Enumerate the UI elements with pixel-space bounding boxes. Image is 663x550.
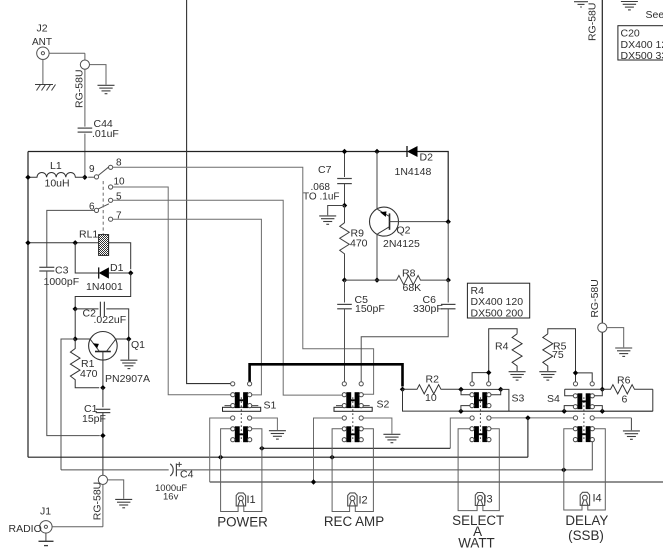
J2 ground stem xyxy=(42,59,44,84)
node S3 top pins junction xyxy=(486,370,491,375)
svg-text:C7: C7 xyxy=(318,164,332,176)
svg-text:R2: R2 xyxy=(426,374,440,386)
switch S3 contact block lower xyxy=(470,426,491,442)
switch S2 top pins xyxy=(342,382,363,386)
J1 ground xyxy=(39,533,54,546)
switch row3 pins S1 xyxy=(231,416,252,420)
svg-text:DX500 200: DX500 200 xyxy=(471,307,524,319)
capacitor C5 xyxy=(337,280,385,382)
resistor R9 xyxy=(340,206,368,281)
node bus3 S2 xyxy=(311,479,316,484)
wire L1 to relay pin 9 xyxy=(88,176,94,178)
resistor R5 xyxy=(543,334,567,371)
wire pin10 to S1 block xyxy=(113,187,231,395)
top rail y=151.5 xyxy=(28,151,407,153)
wire S2 row3 right to ground xyxy=(363,418,392,434)
diode D1 xyxy=(86,262,131,293)
line 411 common xyxy=(461,410,653,412)
svg-text:C20: C20 xyxy=(621,27,640,39)
svg-text:R8: R8 xyxy=(402,268,416,280)
wire S3 block TR to frame right xyxy=(491,389,501,394)
wire S4 row3 right to ground xyxy=(594,417,631,419)
capacitor C6 xyxy=(413,280,456,315)
switch S1 bracket xyxy=(223,400,277,412)
svg-text:Q1: Q1 xyxy=(131,339,145,351)
wire S1 row3 left to bus3 xyxy=(210,418,231,482)
capacitor C44 xyxy=(78,118,119,140)
capacitor C2 xyxy=(75,302,129,339)
switch S2 bracket xyxy=(334,399,390,412)
svg-text:DELAY: DELAY xyxy=(565,513,608,528)
connector J2 xyxy=(32,23,52,60)
svg-text:RL1: RL1 xyxy=(79,229,98,241)
earth ground at J2 xyxy=(35,85,56,91)
wire S4 frame left branch xyxy=(565,389,574,396)
wire S3 frame right descender xyxy=(501,389,509,411)
svg-text:S4: S4 xyxy=(547,393,560,405)
wire S3 block BL drop xyxy=(461,406,470,412)
transistor Q1 xyxy=(75,332,150,388)
svg-text:75: 75 xyxy=(552,349,564,361)
inductor L1 xyxy=(28,160,85,190)
wire D1 node down to C2 xyxy=(75,273,131,309)
svg-text:TO .1uF: TO .1uF xyxy=(303,192,340,203)
resistor R6 xyxy=(602,375,653,406)
node 411 S4 left xyxy=(562,409,567,414)
node Q2 base D2 xyxy=(446,219,451,224)
svg-text:330pF: 330pF xyxy=(413,303,443,315)
coax shield symbol at J1 xyxy=(98,475,107,484)
relay pin 5 xyxy=(109,198,113,202)
svg-text:J2: J2 xyxy=(37,23,48,35)
svg-text:.022uF: .022uF xyxy=(94,314,127,326)
wire J2 to antenna line xyxy=(49,52,85,54)
coax shield symbol right xyxy=(598,323,607,332)
switch S4 contact block upper xyxy=(573,393,594,409)
svg-text:See: See xyxy=(646,9,663,21)
node row3 bus1 riser xyxy=(525,415,530,420)
svg-text:470: 470 xyxy=(350,237,368,249)
wire Q2 emitter xyxy=(376,152,378,210)
svg-text:8: 8 xyxy=(116,157,122,168)
ground hanging S4 row3 xyxy=(630,418,632,430)
svg-text:D2: D2 xyxy=(420,152,434,164)
switch row3 pins S2 xyxy=(342,416,363,420)
svg-text:10: 10 xyxy=(114,177,126,188)
ground below R5 xyxy=(539,372,556,380)
wire Q1 emitter branch to bus2 xyxy=(61,339,75,470)
resistor R2 xyxy=(403,374,462,405)
node Q1 base C1 xyxy=(100,385,105,390)
long vertical wire x=187 from top xyxy=(187,0,231,384)
node C7 bottom xyxy=(342,203,347,208)
ground below C7 xyxy=(319,216,336,224)
ground at J2 coax xyxy=(98,85,115,93)
node S3 frame left R2 xyxy=(458,387,463,392)
bus2 left segment to C4 xyxy=(61,469,169,471)
bus1 horizontal y=457.2 xyxy=(28,456,528,458)
wire C2 left down to emitter node xyxy=(74,309,76,339)
wire C6 to S2 top right pin xyxy=(361,309,448,382)
svg-text:6: 6 xyxy=(622,393,628,405)
svg-text:R4: R4 xyxy=(471,285,485,297)
ground at S1 xyxy=(269,431,286,439)
svg-text:Q2: Q2 xyxy=(397,225,411,237)
node bus1 S2 lamp left xyxy=(329,455,334,460)
relay pin 9 xyxy=(94,175,98,179)
bus1 right riser xyxy=(527,418,529,457)
switch S1 top pins xyxy=(231,382,252,386)
switch S2 contact block upper xyxy=(342,392,363,408)
svg-text:1N4148: 1N4148 xyxy=(395,166,432,178)
wire S3 row3 left to 448 line xyxy=(450,418,470,448)
lamp I3 xyxy=(475,493,484,506)
ground at J1 coax xyxy=(115,499,132,507)
wire S1 row3 right to ground xyxy=(252,418,277,430)
wire S4 block TR riser xyxy=(594,389,602,396)
node S4 top pins junction xyxy=(573,370,578,375)
node Q1 emitter xyxy=(73,336,78,341)
S1 lamp box xyxy=(221,429,262,512)
node S3 frame right xyxy=(498,387,503,392)
resistor R1 xyxy=(70,339,99,388)
node R2 left xyxy=(400,387,405,392)
svg-text:1N4001: 1N4001 xyxy=(86,281,123,293)
svg-text:9: 9 xyxy=(89,164,95,175)
ground top right full xyxy=(621,2,638,10)
wire D1 anode leg xyxy=(75,243,99,273)
caption DELAY SSB xyxy=(565,513,608,543)
svg-text:S2: S2 xyxy=(377,399,390,411)
svg-text:(SSB): (SSB) xyxy=(568,528,604,543)
capacitor C3 xyxy=(39,265,79,289)
node D1 cathode xyxy=(128,270,133,275)
node C1 bottom xyxy=(100,433,105,438)
thick RF wire S1 to R2 xyxy=(250,364,403,386)
S4 frame line xyxy=(565,388,603,390)
node Q2 collector R8 xyxy=(374,277,379,282)
wire C7 node to ground xyxy=(328,206,345,216)
switch S3 contact block upper xyxy=(470,392,491,408)
caption SELECT A WATT xyxy=(452,513,504,550)
svg-text:I4: I4 xyxy=(593,493,602,505)
wire pin6 to C3 xyxy=(47,210,95,267)
capacitor C4 polarized xyxy=(155,462,194,503)
wire left rail to RL1 xyxy=(28,242,99,244)
resistor R8 xyxy=(345,268,449,295)
node L1-C44 junction xyxy=(82,175,87,180)
svg-text:DX400 120: DX400 120 xyxy=(471,296,524,308)
wire Q2 collector xyxy=(376,234,378,280)
wire coax shield to ground J1 xyxy=(108,480,124,499)
lamp I1 xyxy=(236,493,245,506)
long vertical wire x=602 from top xyxy=(601,0,603,389)
wire RL1 right to D1 cathode node xyxy=(109,243,131,269)
wire R2 node descender to 411 line xyxy=(403,389,461,411)
top rail right of D2 xyxy=(418,152,449,222)
capacitor C7 xyxy=(303,152,352,206)
info box R4 values xyxy=(467,283,529,319)
svg-text:15pF: 15pF xyxy=(82,413,106,425)
svg-text:S1: S1 xyxy=(264,400,277,412)
node bus1 S1 lamp left xyxy=(218,455,223,460)
switch S3 top pins xyxy=(470,382,525,405)
transistor Q2 xyxy=(370,207,449,250)
ground right coax xyxy=(615,348,632,356)
switch S2 dashed link xyxy=(352,397,354,441)
switch S1 dashed link xyxy=(240,397,242,441)
ground below Q1 xyxy=(120,360,137,368)
svg-text:2N4125: 2N4125 xyxy=(383,238,420,250)
svg-text:I3: I3 xyxy=(484,494,493,506)
relay pin 6 xyxy=(94,208,98,212)
node R6 coax S4 frame xyxy=(600,387,605,392)
svg-text:RG-58U: RG-58U xyxy=(587,3,599,42)
svg-text:68K: 68K xyxy=(403,282,422,294)
node C2 left xyxy=(73,306,78,311)
svg-text:10: 10 xyxy=(425,392,437,404)
node D1 anode top xyxy=(73,240,78,245)
svg-text:L1: L1 xyxy=(50,160,62,172)
svg-text:150pF: 150pF xyxy=(355,303,385,315)
ground at S2 xyxy=(383,434,400,442)
svg-text:S3: S3 xyxy=(512,393,525,405)
S3 frame line xyxy=(461,388,501,390)
switch S1 contact block upper xyxy=(231,392,252,408)
connector J1 xyxy=(9,506,53,536)
wire pin8 to S2 block xyxy=(113,167,374,394)
switch S3 dashed link xyxy=(479,397,481,441)
svg-text:10uH: 10uH xyxy=(45,178,70,190)
svg-text:I1: I1 xyxy=(247,494,256,506)
row3 line S3 S4 xyxy=(491,417,574,419)
svg-text:C3: C3 xyxy=(55,265,69,277)
svg-text:J1: J1 xyxy=(40,506,51,518)
svg-text:I2: I2 xyxy=(359,495,368,507)
switch row3 pins S4 xyxy=(573,416,594,420)
info box C20 values xyxy=(618,26,663,62)
wire Q1 collector to ground xyxy=(128,339,130,360)
lamp I4 xyxy=(580,492,589,505)
node 448 S1 lamp right xyxy=(259,446,264,451)
svg-text:DX400 120: DX400 120 xyxy=(621,39,663,51)
lamp I2 xyxy=(348,493,357,506)
relay coil RL1 xyxy=(79,229,109,256)
svg-text:REC AMP: REC AMP xyxy=(324,514,384,529)
wire right coax shield to ground xyxy=(607,328,624,348)
svg-text:C4: C4 xyxy=(180,469,194,481)
node 411 S4 right xyxy=(600,409,605,414)
svg-text:RG-58U: RG-58U xyxy=(91,482,103,521)
node 411 S3 left xyxy=(458,409,463,414)
relay arm 9-8 xyxy=(98,167,109,176)
wire coax shield to ground xyxy=(90,65,107,85)
node R9 C5 R8 xyxy=(342,277,347,282)
wire J1 to coax line xyxy=(52,526,103,528)
switch S4 top pins xyxy=(547,382,594,405)
relay arm 6-5 xyxy=(98,204,109,209)
svg-text:ANT: ANT xyxy=(32,37,52,48)
wire S2 row3 left descender xyxy=(314,418,343,482)
svg-text:R6: R6 xyxy=(617,375,631,387)
bus3 horizontal y=482 xyxy=(210,481,663,483)
switch row3 pins S3 xyxy=(470,416,491,420)
svg-text:PN2907A: PN2907A xyxy=(105,373,150,385)
diode D2 xyxy=(395,146,434,178)
wire S4 block BL drop xyxy=(564,406,573,412)
node Q1 collector xyxy=(126,336,131,341)
S4 lamp box xyxy=(564,429,606,510)
wire pin7 to S1 block xyxy=(113,219,262,395)
svg-text:RG-58U: RG-58U xyxy=(74,69,86,108)
node C7 top rail xyxy=(342,149,347,154)
wire pin5 to S2 block xyxy=(113,200,343,395)
switch S4 dashed link xyxy=(583,397,585,441)
wire R4 lead to S3 top pins xyxy=(472,329,517,382)
resistor R4 xyxy=(495,334,522,371)
svg-text:R4: R4 xyxy=(495,341,509,353)
left rail x=28 xyxy=(27,152,29,458)
node left rail RL1 line xyxy=(25,240,30,245)
wire D2 node down to R8 xyxy=(447,222,449,280)
wire J1 coax vertical below xyxy=(102,485,104,527)
S3 lamp box xyxy=(458,429,499,511)
ground below R4 xyxy=(509,372,526,380)
svg-text:RG-58U: RG-58U xyxy=(589,279,601,318)
wire R5 lead to S4 top pins xyxy=(548,329,592,382)
wire S3 frame left branch to block xyxy=(461,389,470,394)
switch S4 contact block lower xyxy=(573,426,594,442)
node left rail L1 xyxy=(25,175,30,180)
relay pin 8 xyxy=(109,165,113,169)
wire S4 block BR drop xyxy=(594,406,602,412)
wire C3 down to C1 node xyxy=(47,271,100,436)
wire R6 return loop xyxy=(652,389,654,411)
coax shield symbol top xyxy=(80,60,89,69)
svg-text:DX500 330: DX500 330 xyxy=(621,50,663,62)
line 448 from S1 lamp xyxy=(262,447,450,449)
top right partial ground xyxy=(574,2,588,7)
capacitor C1 xyxy=(82,388,110,476)
switch S2 contact block lower xyxy=(342,426,363,442)
svg-text:16v: 16v xyxy=(163,492,179,503)
switch S1 contact block lower xyxy=(231,426,252,442)
wire antenna vertical x=84.9 xyxy=(84,53,86,177)
svg-text:.01uF: .01uF xyxy=(92,128,119,140)
node Q2 emitter rail xyxy=(374,149,379,154)
bus2 right segment xyxy=(176,442,592,470)
svg-text:POWER: POWER xyxy=(217,514,268,529)
svg-text:WATT: WATT xyxy=(458,535,494,550)
relay mechanical dashed link xyxy=(102,181,104,235)
svg-text:D1: D1 xyxy=(110,262,124,274)
svg-text:5: 5 xyxy=(116,192,122,203)
svg-text:RADIO: RADIO xyxy=(9,523,42,535)
svg-text:470: 470 xyxy=(80,368,98,380)
svg-text:1000pF: 1000pF xyxy=(44,276,80,288)
node R8 right C6 xyxy=(446,277,451,282)
S2 lamp box xyxy=(332,429,373,512)
relay pin 7 xyxy=(109,217,113,221)
relay pin 10 xyxy=(109,185,113,189)
node bus2 S4 lamp left xyxy=(561,467,566,472)
